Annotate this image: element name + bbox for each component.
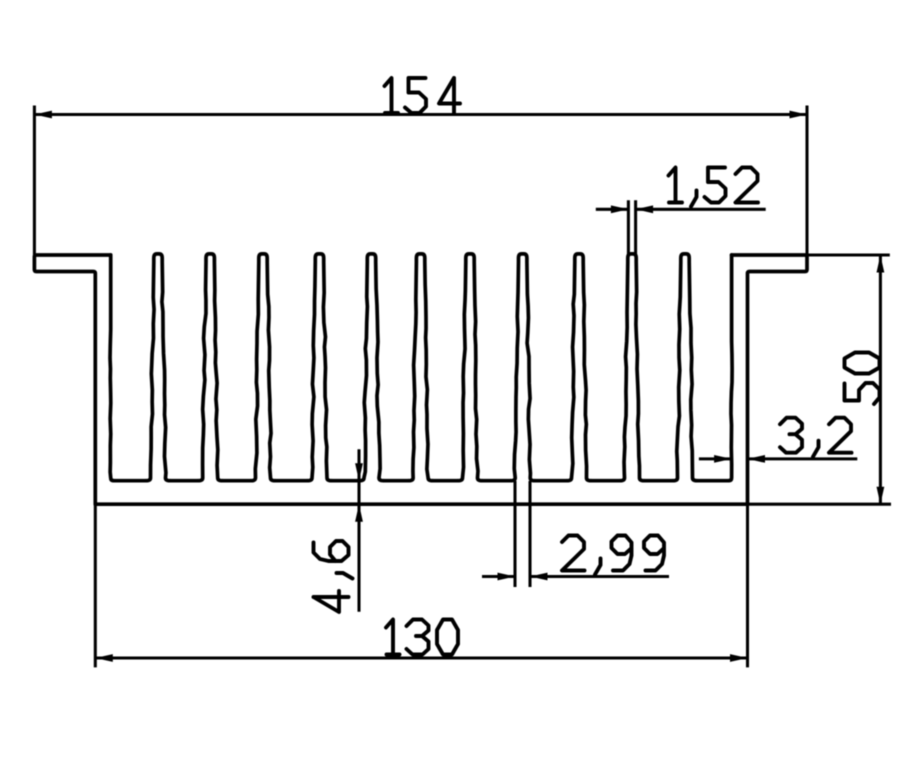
dim 2,99: dimension line [482, 575, 669, 578]
left wall inner face [110, 255, 114, 481]
fin 8 [511, 254, 535, 481]
dim 1,52: left arrowhead [611, 205, 629, 213]
dim 3,2: left arrowhead [714, 455, 732, 463]
fin 1 [146, 254, 170, 481]
dim 4,6: lower arrowhead [355, 504, 363, 522]
dim 3,2: dimension line [699, 457, 857, 460]
dim 3,2: right arrowhead [748, 455, 766, 463]
fin 7 [458, 254, 482, 481]
dim 154: left arrowhead [34, 111, 52, 119]
right wall inner face [729, 255, 733, 481]
dim 154: right arrowhead [790, 111, 808, 119]
dim 50: text "50" [845, 353, 880, 405]
fin 10 [620, 254, 644, 481]
dim 1,52: extension lines above fin tip [628, 200, 635, 254]
dim 130: dimension line [95, 656, 747, 659]
dim 1,52: text "1,52" [669, 168, 759, 207]
dim 4,6: upper arrowhead [355, 463, 363, 481]
dim 3,2: text "3,2" [780, 418, 852, 457]
dim 154: extension lines [34, 106, 807, 256]
dim 2,99: extension lines below fin root [515, 481, 530, 587]
dim 50: dimension line [879, 255, 882, 504]
fin 2 [198, 254, 222, 481]
dim 1,52: dimension line [596, 208, 766, 211]
heatsink profile outer contour [34, 255, 807, 504]
dim 2,99: text "2,99" [562, 536, 664, 575]
dim 130: extension lines [95, 504, 747, 667]
dim 4,6: text "4,6" [314, 541, 353, 612]
dim 50: top arrowhead [877, 255, 885, 273]
dim 130: right arrowhead [730, 654, 748, 662]
fin 11 [673, 254, 697, 481]
dim 154: dimension line [34, 113, 807, 116]
dim 50: bottom arrowhead [877, 487, 885, 505]
dim 130: text "130" [386, 620, 458, 655]
fin 5 [360, 254, 384, 481]
fin 4 [308, 254, 332, 481]
dim 2,99: left arrowhead [498, 573, 516, 581]
base top line segments between fins [114, 479, 729, 483]
dim 1,52: right arrowhead [636, 205, 654, 213]
dim 2,99: right arrowhead [530, 573, 548, 581]
dim 50: extension lines [748, 255, 892, 504]
dim 4,6: dimension line [357, 449, 360, 611]
dim 130: left arrowhead [95, 654, 113, 662]
dim 154: text "154" [385, 78, 461, 113]
fin 6 [409, 254, 433, 481]
fin 3 [251, 254, 275, 481]
fin 9 [567, 254, 591, 481]
